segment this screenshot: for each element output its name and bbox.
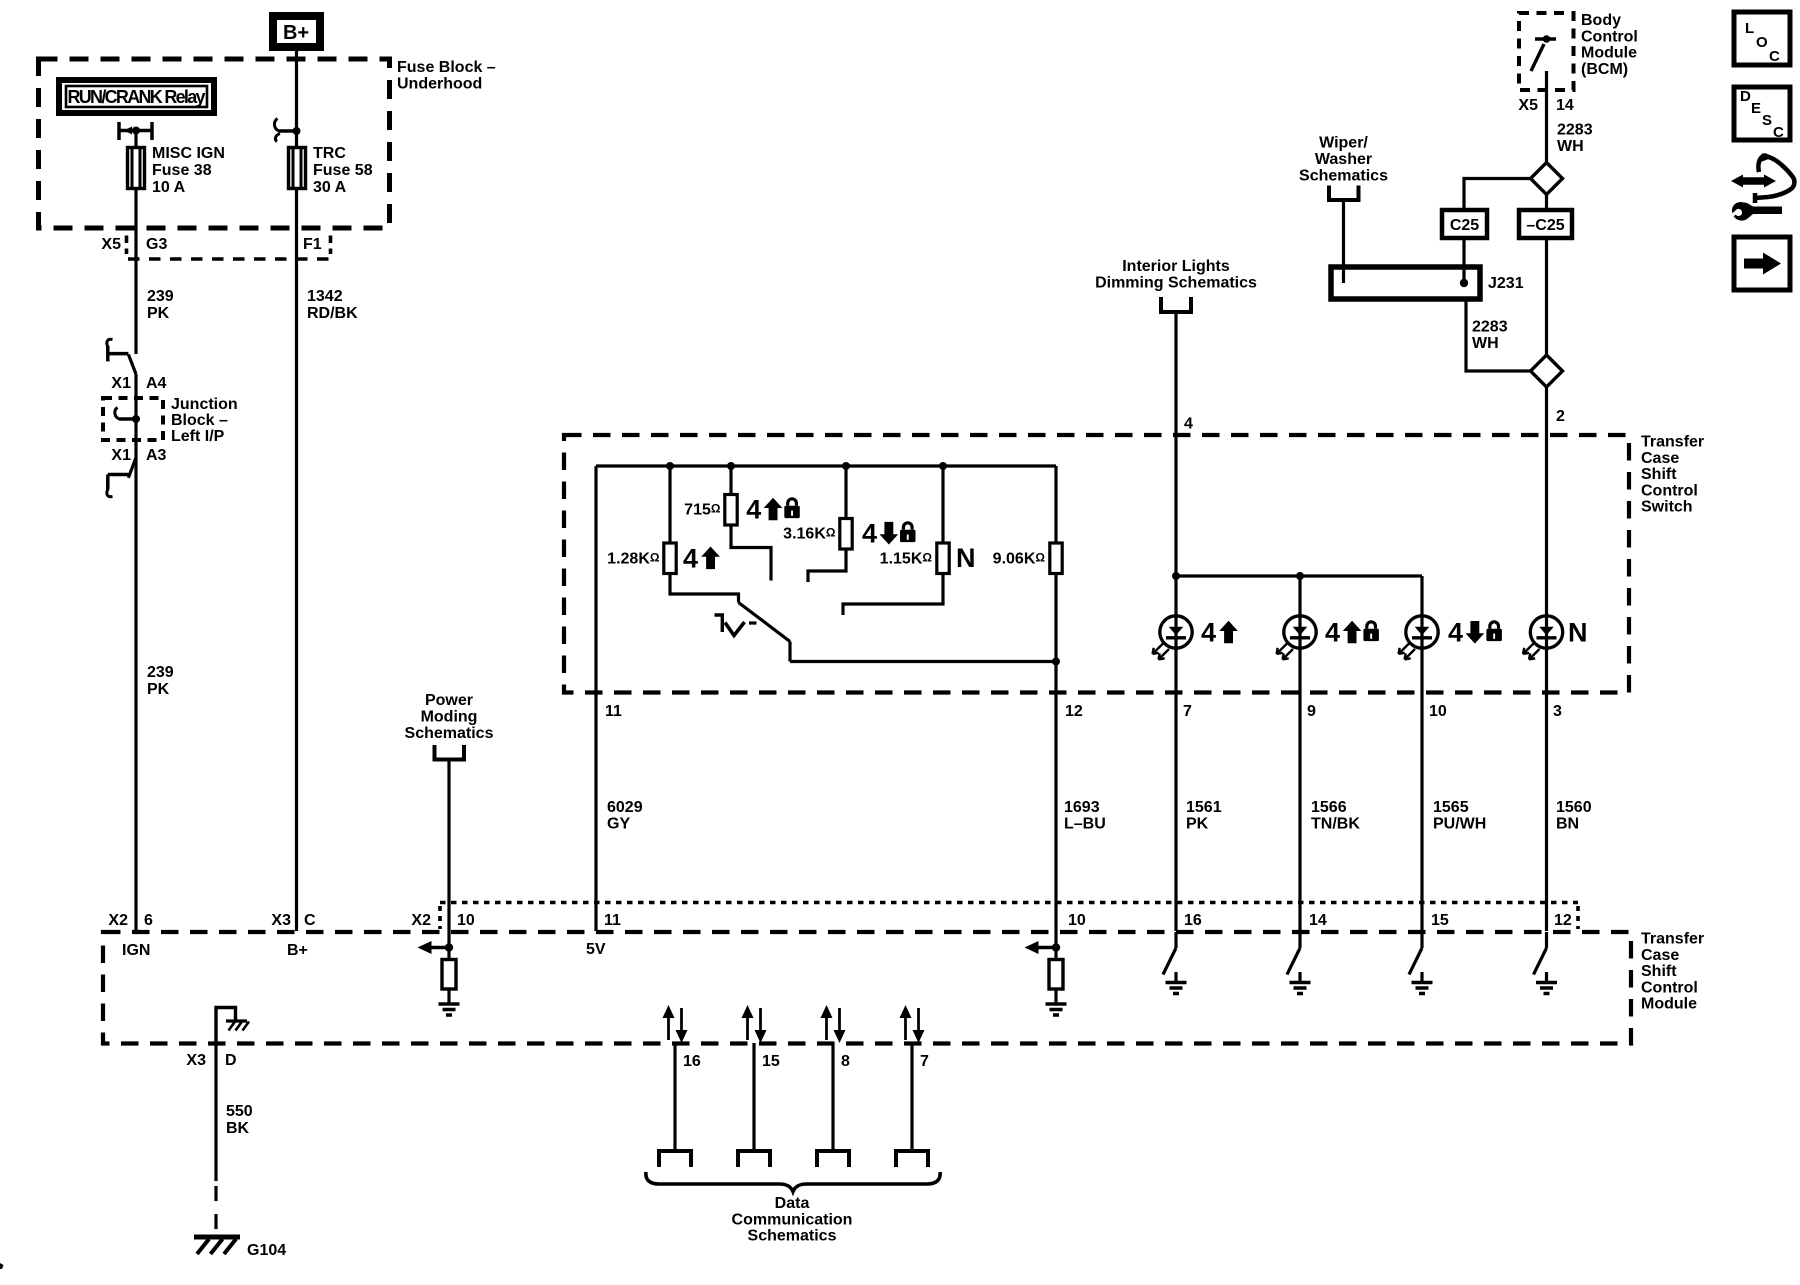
svg-text:15: 15: [762, 1053, 780, 1070]
wire to LED N: [1545, 387, 1548, 931]
svg-text:X5: X5: [101, 236, 121, 253]
data bus arrows pin 15: [746, 1017, 749, 1040]
svg-text:G104: G104: [247, 1242, 286, 1259]
svg-text:X2: X2: [108, 912, 128, 929]
connector C25 box: [1442, 210, 1487, 238]
data bus arrows pin 7: [904, 1017, 907, 1040]
DESC icon: [1734, 87, 1790, 140]
svg-text:1693: 1693: [1064, 799, 1100, 816]
wire switch common to module pin 11: [594, 466, 597, 931]
connector diamond upper: [1531, 163, 1563, 195]
svg-text:–C25: –C25: [1526, 217, 1564, 234]
wire continues: [134, 374, 137, 931]
wiper output to pin 12: [790, 660, 1056, 663]
svg-text:X2: X2: [411, 912, 431, 929]
pan tool icon: [1731, 153, 1794, 221]
svg-text:Transfer: Transfer: [1641, 434, 1704, 451]
module internal trace to ground pin D: [216, 1008, 236, 1044]
node bus R4: [939, 462, 947, 470]
svg-text:Power: Power: [425, 692, 473, 709]
svg-text:2283: 2283: [1557, 122, 1593, 139]
svg-text:550: 550: [226, 1103, 253, 1120]
svg-text:BK: BK: [226, 1120, 250, 1137]
svg-text:3: 3: [1553, 703, 1562, 720]
svg-text:5V: 5V: [586, 941, 606, 958]
wire B+ down to module pin C: [295, 51, 298, 931]
data bus arrows pin 8: [825, 1017, 828, 1040]
LED 4HI indicator: [1153, 616, 1193, 660]
wire -C25 down: [1545, 195, 1548, 356]
svg-text:Dimming Schematics: Dimming Schematics: [1095, 275, 1257, 292]
module switch to ground pin 15: [1420, 932, 1423, 948]
svg-text:Fuse 58: Fuse 58: [313, 162, 373, 179]
wire R5 to module pin 10: [1054, 574, 1057, 948]
svg-text:1560: 1560: [1556, 799, 1592, 816]
resistor 715: [729, 466, 732, 495]
svg-text:PK: PK: [147, 305, 170, 322]
svg-text:11: 11: [604, 912, 621, 929]
svg-text:N: N: [1568, 618, 1588, 648]
svg-text:10: 10: [1068, 912, 1086, 929]
svg-text:1566: 1566: [1311, 799, 1347, 816]
svg-text:12: 12: [1554, 912, 1572, 929]
svg-text:X5: X5: [1518, 97, 1538, 114]
svg-text:(BCM): (BCM): [1581, 61, 1628, 78]
page corner mark: [0, 1263, 4, 1269]
svg-text:9: 9: [1307, 703, 1316, 720]
svg-text:S: S: [1762, 112, 1772, 129]
LED 4LO-lock indicator: [1399, 616, 1439, 660]
svg-text:A4: A4: [146, 375, 167, 392]
svg-text:Switch: Switch: [1641, 499, 1693, 516]
svg-text:Shift: Shift: [1641, 466, 1677, 483]
wire wiper to splice J231: [1342, 200, 1345, 283]
BCM internal switch: [1535, 37, 1556, 40]
junction block internal tap: [119, 417, 136, 421]
connector X2 dotted line: [440, 901, 1578, 905]
tap hook symbol: [279, 129, 297, 133]
svg-text:30 A: 30 A: [313, 179, 347, 196]
svg-text:GY: GY: [607, 816, 630, 833]
svg-text:12: 12: [1065, 703, 1083, 720]
resistor 1.15K: [941, 466, 944, 543]
svg-text:WH: WH: [1557, 138, 1584, 155]
wire R1 to switch contact: [670, 574, 739, 603]
wire interior lights to LED1: [1174, 312, 1177, 931]
svg-text:2283: 2283: [1472, 319, 1508, 336]
module input pin 10 termination: arrow, resistor, ground: [430, 946, 449, 949]
svg-text:Control: Control: [1641, 482, 1698, 499]
Fuse Block - Underhood dashed box: [39, 59, 390, 228]
Transfer Case Shift Control Module dashed box: [103, 932, 1631, 1044]
node relay output: [132, 127, 140, 135]
svg-text:Module: Module: [1641, 996, 1697, 1013]
svg-text:Interior Lights: Interior Lights: [1122, 258, 1230, 275]
resistor 3.16K: [844, 466, 847, 519]
svg-text:Transfer: Transfer: [1641, 931, 1704, 948]
svg-text:6029: 6029: [607, 799, 643, 816]
svg-text:O: O: [1756, 34, 1768, 51]
resistor 1.28K: [668, 466, 671, 543]
wire power moding to module: [447, 760, 450, 948]
svg-text:X3: X3: [186, 1052, 206, 1069]
svg-text:C: C: [1773, 124, 1784, 141]
svg-text:G3: G3: [146, 236, 167, 253]
svg-text:4: 4: [683, 544, 698, 574]
svg-text:Body: Body: [1581, 12, 1621, 29]
connector -C25 box: [1519, 210, 1572, 238]
wire relay to fuse 38: [134, 131, 137, 148]
data wire pin 15: [752, 1043, 755, 1151]
forward arrow icon: [1734, 237, 1790, 290]
svg-text:Underhood: Underhood: [397, 76, 482, 93]
svg-text:J231: J231: [1488, 275, 1524, 292]
svg-text:Wiper/: Wiper/: [1319, 135, 1368, 152]
svg-text:Left I/P: Left I/P: [171, 428, 225, 445]
svg-text:1565: 1565: [1433, 799, 1469, 816]
svg-text:F1: F1: [303, 236, 322, 253]
switch wiper: [739, 603, 791, 642]
branch to C25: [1464, 179, 1531, 211]
brace Data Communication: [646, 1172, 940, 1192]
wire 2283 WH from splice: [1466, 299, 1531, 371]
svg-text:RD/BK: RD/BK: [307, 305, 358, 322]
data wire pin 7: [910, 1043, 913, 1151]
svg-text:7: 7: [920, 1053, 929, 1070]
svg-text:Control: Control: [1581, 28, 1638, 45]
connector X1-A3 pass-through: [128, 458, 136, 478]
svg-text:239: 239: [147, 288, 174, 305]
svg-text:4: 4: [862, 519, 877, 549]
LED N indicator: [1523, 616, 1563, 660]
svg-text:Case: Case: [1641, 450, 1679, 467]
svg-text:D: D: [1740, 88, 1751, 105]
svg-text:B+: B+: [283, 22, 309, 44]
switch supply bus: [596, 464, 1056, 467]
svg-text:Schematics: Schematics: [1299, 168, 1388, 185]
svg-text:10: 10: [457, 912, 475, 929]
svg-text:Fuse Block –: Fuse Block –: [397, 59, 496, 76]
svg-text:PK: PK: [147, 681, 170, 698]
chassis ground inside module: [226, 1019, 247, 1022]
svg-text:4: 4: [1325, 618, 1340, 648]
svg-text:Moding: Moding: [421, 709, 478, 726]
svg-text:Module: Module: [1581, 45, 1637, 62]
svg-text:10: 10: [1429, 703, 1447, 720]
svg-text:8: 8: [841, 1053, 850, 1070]
svg-text:4: 4: [746, 495, 761, 525]
indicator supply bus: [1176, 574, 1422, 577]
svg-text:7: 7: [1183, 703, 1192, 720]
svg-text:16: 16: [683, 1053, 701, 1070]
svg-text:239: 239: [147, 664, 174, 681]
svg-text:D: D: [225, 1052, 237, 1069]
LOC icon: [1734, 12, 1790, 65]
node LED1 bus: [1172, 572, 1180, 580]
svg-text:L: L: [1745, 20, 1754, 37]
node LED2 bus: [1296, 572, 1304, 580]
svg-text:1342: 1342: [307, 288, 343, 305]
svg-text:Junction: Junction: [171, 396, 238, 413]
svg-text:IGN: IGN: [122, 942, 150, 959]
fuse F38 MISC IGN: [128, 148, 145, 189]
wire R3 to contact: [808, 549, 846, 582]
data wire pin 16: [673, 1043, 676, 1151]
svg-text:1561: 1561: [1186, 799, 1222, 816]
wire LED2 down: [1298, 576, 1301, 931]
node J231: [1460, 279, 1468, 287]
svg-text:RUN/CRANK Relay: RUN/CRANK Relay: [68, 87, 206, 107]
svg-text:Case: Case: [1641, 947, 1679, 964]
svg-text:Schematics: Schematics: [405, 725, 494, 742]
wire R2 to contact: [731, 525, 771, 581]
svg-text:WH: WH: [1472, 335, 1499, 352]
Transfer Case Shift Control Switch dashed box: [564, 435, 1629, 693]
fuse F58 TRC: [289, 148, 306, 189]
svg-text:X1: X1: [111, 375, 131, 392]
node bus R2: [727, 462, 735, 470]
svg-text:TRC: TRC: [313, 145, 346, 162]
svg-text:Control: Control: [1641, 979, 1698, 996]
svg-text:TN/BK: TN/BK: [1311, 816, 1360, 833]
RUN/CRANK Relay box: [59, 80, 214, 113]
svg-text:2: 2: [1556, 408, 1565, 425]
module switch to ground pin 16: [1174, 932, 1177, 948]
svg-text:L–BU: L–BU: [1064, 816, 1106, 833]
ground G104: [194, 1235, 240, 1240]
svg-text:Shift: Shift: [1641, 963, 1677, 980]
data wire pin 8: [831, 1043, 834, 1151]
svg-text:4: 4: [1201, 618, 1216, 648]
svg-text:14: 14: [1556, 97, 1574, 114]
svg-text:B+: B+: [287, 942, 308, 959]
wire 239 PK ignition feed: [134, 189, 137, 354]
node bus R1: [666, 462, 674, 470]
svg-text:11: 11: [605, 703, 622, 720]
wire R4 to contact: [843, 574, 943, 616]
svg-text:Block –: Block –: [171, 412, 228, 429]
svg-text:C: C: [304, 912, 316, 929]
svg-text:C: C: [1769, 48, 1780, 65]
svg-text:4: 4: [1184, 416, 1193, 433]
svg-text:PU/WH: PU/WH: [1433, 816, 1486, 833]
svg-text:Schematics: Schematics: [748, 1228, 837, 1245]
svg-text:4: 4: [1448, 618, 1463, 648]
Body Control Module dashed box: [1519, 13, 1574, 90]
svg-text:E: E: [1751, 100, 1761, 117]
svg-text:Data: Data: [775, 1195, 810, 1212]
splice J231 bar: [1331, 267, 1480, 299]
tap node on B+ wire: [293, 127, 301, 135]
module switch to ground pin 14: [1298, 932, 1301, 948]
svg-text:MISC IGN: MISC IGN: [152, 145, 225, 162]
wire BCM output: [1545, 71, 1548, 163]
wire LED3 down: [1420, 576, 1423, 931]
node wiper output: [1052, 658, 1060, 666]
module input pin 10 right termination: arrow, resistor, ground: [1037, 946, 1056, 949]
node bus R3: [842, 462, 850, 470]
battery feed B+ box: [273, 16, 320, 47]
svg-text:X1: X1: [111, 447, 131, 464]
svg-text:Fuse 38: Fuse 38: [152, 162, 212, 179]
svg-text:15: 15: [1431, 912, 1449, 929]
svg-text:A3: A3: [146, 447, 167, 464]
wiper actuator mark: [715, 615, 725, 632]
svg-text:Washer: Washer: [1315, 151, 1372, 168]
module switch to ground pin 12: [1545, 932, 1548, 948]
svg-text:C25: C25: [1450, 217, 1479, 234]
wire C25 into splice: [1462, 238, 1465, 283]
relay output terminal bracket: [119, 122, 152, 140]
svg-text:BN: BN: [1556, 816, 1579, 833]
svg-text:14: 14: [1309, 912, 1327, 929]
connector X1-A4 pass-through: [108, 346, 129, 361]
wire 550 BK: [214, 1043, 217, 1181]
svg-text:PK: PK: [1186, 816, 1209, 833]
svg-text:Communication: Communication: [732, 1211, 853, 1228]
svg-text:16: 16: [1184, 912, 1202, 929]
Junction Block - Left I/P dashed box: [103, 398, 163, 440]
LED 4HI-lock indicator: [1277, 616, 1317, 660]
svg-text:6: 6: [144, 912, 153, 929]
node in junction block: [132, 415, 140, 423]
data bus arrows pin 16: [667, 1017, 670, 1040]
resistor 9.06K: [1054, 466, 1057, 543]
svg-text:N: N: [956, 543, 976, 573]
connector diamond lower: [1531, 355, 1563, 387]
svg-text:10 A: 10 A: [152, 179, 186, 196]
svg-text:X3: X3: [271, 912, 291, 929]
